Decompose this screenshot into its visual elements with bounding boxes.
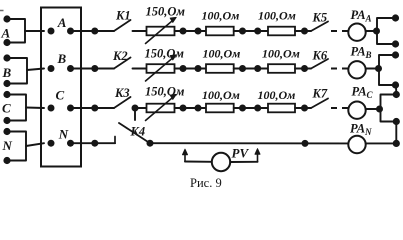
switch K7 blade (open) bbox=[311, 99, 328, 109]
svg-text:A: A bbox=[1, 26, 11, 41]
ammeter PA_C bbox=[348, 102, 365, 119]
wire: bracket joining terminal A posts bbox=[7, 19, 25, 43]
svg-text:B: B bbox=[57, 51, 67, 66]
wire: R2a to resistor R2b bbox=[234, 68, 268, 70]
output terminal A lower post bbox=[392, 40, 399, 47]
input terminal N: lower binding post bbox=[3, 157, 10, 164]
wire: phase B from patch box to switch K2 bbox=[71, 68, 115, 70]
node before switch K6 bbox=[301, 65, 308, 72]
wire (dashed): switch K6 to ammeter bbox=[331, 68, 348, 70]
node before switch K5 bbox=[301, 28, 308, 35]
wire: branch from phase C down toward switch K4 bbox=[134, 110, 136, 120]
node: phase A junction after patch box bbox=[91, 28, 98, 35]
svg-text:100,Ом: 100,Ом bbox=[202, 88, 240, 102]
wire: R3b to switch K7 bbox=[295, 107, 311, 109]
node after rheostat R2 bbox=[180, 65, 187, 72]
wire: switch K2 fixed side to rheostat R2 bbox=[133, 68, 147, 70]
node A: left jack inside patch box bbox=[48, 28, 55, 35]
input terminal C: upper binding post bbox=[3, 91, 10, 98]
switch K6 blade (open) bbox=[311, 59, 328, 69]
svg-text:C: C bbox=[2, 101, 11, 116]
node after resistor R2a bbox=[239, 65, 246, 72]
rheostat R2 adjustment arrow bbox=[146, 57, 175, 81]
input terminal B: upper binding post bbox=[3, 54, 10, 61]
switch K5 blade (open) bbox=[311, 22, 328, 32]
rheostat R3 150 Om body bbox=[147, 104, 175, 113]
node B: left jack inside patch box bbox=[48, 65, 55, 72]
switch K2 blade (open) bbox=[114, 58, 131, 69]
svg-text:PV: PV bbox=[232, 146, 250, 161]
svg-text:N: N bbox=[58, 127, 69, 142]
wire: switch K4 to ammeter PA_N bbox=[150, 142, 348, 144]
wire: output bracket C bbox=[381, 95, 397, 122]
voltmeter PV bbox=[212, 153, 230, 171]
rheostat R1 150 Om body bbox=[147, 27, 175, 36]
terminal patch box bbox=[41, 8, 81, 167]
wire: switch K1 fixed side to rheostat R1 bbox=[133, 30, 147, 32]
node: neutral junction after patch box bbox=[91, 140, 98, 147]
wire: bracket joining terminal B posts bbox=[7, 58, 27, 84]
switch K3 blade (open) bbox=[114, 97, 131, 108]
node: switch K4 pivot bbox=[147, 140, 154, 147]
node: phase C junction after patch box bbox=[91, 105, 98, 112]
wire: tap from terminal A to patch box bbox=[25, 30, 44, 32]
input terminal A: lower binding post bbox=[3, 39, 10, 46]
switch K4 fixed contact hook bbox=[114, 137, 116, 144]
output terminal A upper post bbox=[392, 14, 399, 21]
svg-text:K2: K2 bbox=[112, 49, 128, 63]
svg-text:150,Ом: 150,Ом bbox=[145, 85, 185, 99]
input terminal N: upper binding post bbox=[3, 128, 10, 135]
switch K4 blade (open, thrown up-left) bbox=[119, 123, 150, 143]
svg-text:A: A bbox=[57, 15, 67, 30]
svg-text:Рис. 9: Рис. 9 bbox=[190, 176, 222, 190]
rheostat R2 150 Om body bbox=[147, 64, 175, 73]
wire: tap from terminal N to patch box bbox=[26, 143, 44, 146]
switch K1 blade (open) bbox=[114, 20, 131, 31]
resistor R2b 100 Om body bbox=[268, 64, 295, 73]
wire stub at left margin bbox=[0, 10, 4, 12]
svg-text:100,Ом: 100,Ом bbox=[262, 47, 300, 61]
wire: R2b to switch K6 bbox=[295, 68, 311, 70]
input terminal A: upper binding post bbox=[3, 15, 10, 22]
node on neutral wire bbox=[302, 140, 309, 147]
node: output junction B bbox=[375, 65, 382, 72]
svg-text:150,Ом: 150,Ом bbox=[146, 5, 186, 19]
node before resistor R3b bbox=[254, 105, 261, 112]
output terminal C upper post bbox=[393, 91, 400, 98]
wire: R1a to resistor R1b bbox=[234, 30, 268, 32]
wire: link from output B lower post to output C upper post bbox=[395, 85, 397, 95]
ammeter PA_A bbox=[348, 24, 365, 41]
output terminal C lower post bbox=[393, 118, 400, 125]
svg-text:K7: K7 bbox=[312, 87, 328, 101]
resistor R3b 100 Om body bbox=[268, 104, 295, 113]
svg-text:K6: K6 bbox=[312, 49, 328, 63]
node: junction of phase C with K4 branch bbox=[132, 105, 139, 112]
svg-text:C: C bbox=[56, 88, 65, 103]
wire: tap from terminal B to patch box bbox=[27, 69, 44, 71]
svg-text:100,Ом: 100,Ом bbox=[202, 9, 240, 23]
wire: phase A from patch box to switch K1 bbox=[71, 30, 115, 32]
node before resistor R1b bbox=[254, 28, 261, 35]
node after resistor R1a bbox=[239, 28, 246, 35]
wire: bracket joining terminal N posts bbox=[7, 132, 26, 161]
ammeter PA_B bbox=[348, 61, 365, 78]
wire: ammeter PA_N to neutral output node bbox=[366, 142, 397, 144]
svg-text:150,Ом: 150,Ом bbox=[145, 47, 185, 61]
rheostat R3 adjustment arrow bbox=[146, 96, 175, 120]
wire: link from output C lower post down to neutral output bbox=[395, 122, 397, 144]
node before switch K7 bbox=[301, 105, 308, 112]
node: output junction C bbox=[376, 106, 383, 113]
node after rheostat R3 bbox=[180, 105, 187, 112]
wire: bracket joining terminal C posts bbox=[7, 95, 26, 121]
svg-text:K4: K4 bbox=[130, 125, 146, 139]
wire: ammeter PA_B to output junction B bbox=[366, 68, 379, 70]
output terminal B lower post bbox=[392, 81, 399, 88]
wire: neutral N from patch box to switch K4 bbox=[71, 142, 116, 144]
ammeter PA_N bbox=[348, 136, 365, 153]
node A: right jack inside patch box bbox=[67, 28, 74, 35]
wire (dashed): switch K7 to ammeter bbox=[331, 107, 348, 109]
wire: R1b to switch K5 bbox=[295, 30, 311, 32]
wire: ammeter PA_A to output junction A bbox=[366, 30, 377, 32]
wire: phase C from patch box to switch K3 bbox=[71, 107, 115, 109]
wire: ammeter PA_C to output junction C bbox=[366, 108, 380, 110]
wire: switch K3 fixed side to rheostat R3 bbox=[135, 107, 147, 109]
wire (dashed): switch K5 to ammeter bbox=[331, 30, 348, 32]
node C: right jack inside patch box bbox=[67, 105, 74, 112]
node before resistor R2a bbox=[195, 65, 202, 72]
wire: tap from terminal C to patch box bbox=[26, 107, 44, 110]
wire: output bracket A bbox=[377, 18, 396, 44]
wire: R3 to resistor R3a bbox=[175, 107, 207, 109]
node C: left jack inside patch box bbox=[48, 105, 55, 112]
node: phase B junction after patch box bbox=[91, 65, 98, 72]
output terminal B upper post bbox=[392, 51, 399, 58]
resistor R2a 100 Om body bbox=[206, 64, 234, 73]
wire: left probe to voltmeter PV bbox=[185, 161, 212, 163]
node before resistor R3a bbox=[195, 105, 202, 112]
circuit schematic: three-phase measurement lab circuit, fig. 9 bbox=[0, 0, 403, 192]
svg-text:100,Ом: 100,Ом bbox=[258, 88, 296, 102]
voltmeter PV probe arrow (right) bbox=[257, 152, 259, 162]
svg-text:K1: K1 bbox=[115, 9, 131, 23]
node B: right jack inside patch box bbox=[67, 65, 74, 72]
svg-text:K5: K5 bbox=[312, 11, 328, 25]
svg-text:100,Ом: 100,Ом bbox=[203, 47, 241, 61]
resistor R1b 100 Om body bbox=[268, 27, 295, 36]
svg-text:B: B bbox=[2, 65, 12, 80]
input terminal B: lower binding post bbox=[3, 80, 10, 87]
svg-text:N: N bbox=[2, 138, 13, 153]
node N: left jack inside patch box bbox=[48, 140, 55, 147]
rheostat R1 adjustment arrow bbox=[146, 19, 175, 43]
node: neutral output post bbox=[393, 140, 400, 147]
resistor R3a 100 Om body bbox=[206, 104, 234, 113]
node before resistor R2b bbox=[254, 65, 261, 72]
svg-text:100,Ом: 100,Ом bbox=[258, 9, 296, 23]
wire: output bracket B bbox=[379, 55, 396, 85]
input terminal C: lower binding post bbox=[3, 117, 10, 124]
voltmeter PV probe arrow (left) bbox=[184, 153, 186, 162]
node after rheostat R1 bbox=[180, 28, 187, 35]
wire: R1 to resistor R1a bbox=[175, 30, 207, 32]
node: output junction A bbox=[373, 28, 380, 35]
wire: voltmeter PV to right probe bbox=[230, 161, 257, 163]
node N: right jack inside patch box bbox=[67, 140, 74, 147]
wire: R2 to resistor R2a bbox=[175, 68, 207, 70]
node before resistor R1a bbox=[195, 28, 202, 35]
wire: R3a to resistor R3b bbox=[234, 107, 268, 109]
resistor R1a 100 Om body bbox=[206, 27, 234, 36]
node after resistor R3a bbox=[239, 105, 246, 112]
svg-text:K3: K3 bbox=[114, 86, 130, 100]
